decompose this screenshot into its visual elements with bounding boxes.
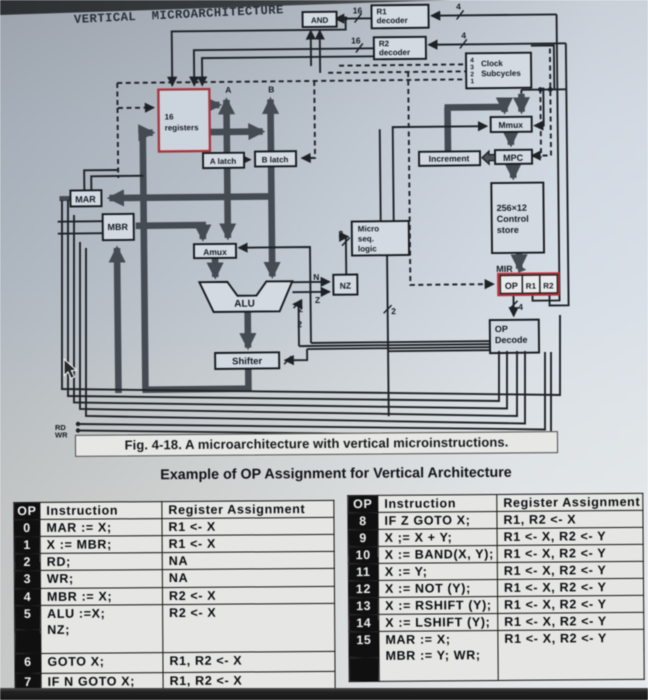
wire: feedback line outer — [62, 200, 560, 395]
MIR OP field — [500, 275, 522, 293]
wire: Amux to ALU — [212, 258, 219, 277]
svg-text:16: 16 — [353, 5, 363, 15]
dashed stub below registers arrow — [117, 108, 120, 178]
wire: R2 loop right side — [547, 43, 569, 305]
svg-text:A: A — [225, 85, 231, 95]
svg-text:4: 4 — [470, 57, 474, 64]
C bus vertical — [143, 130, 146, 390]
wire: R1 field to R1 decoder — [432, 14, 557, 15]
wire: Amux control — [239, 247, 311, 344]
wire: ALU to shifter — [244, 312, 251, 348]
svg-text:Micro: Micro — [358, 224, 380, 233]
svg-text:store: store — [497, 225, 519, 235]
svg-text:2: 2 — [391, 306, 396, 316]
MPC to increment hollow arrow — [482, 151, 495, 164]
MIR R1 field — [522, 275, 540, 293]
micro sequencing logic box — [352, 221, 409, 256]
wire: control store to MIR — [516, 253, 523, 269]
svg-text:registers: registers — [165, 123, 199, 132]
wire: MBR to Amux — [136, 225, 203, 240]
svg-text:Control: Control — [497, 214, 529, 224]
MIR register red outline — [498, 273, 558, 295]
svg-text:Shifter: Shifter — [232, 356, 263, 367]
B bus (up arrow) — [267, 99, 274, 151]
B latch box — [255, 151, 296, 166]
wire: OP decode bottom output 1 — [68, 200, 499, 401]
svg-text:seq.: seq. — [358, 234, 374, 243]
svg-text:4: 4 — [456, 1, 461, 11]
wire: registers to A bus — [209, 102, 219, 109]
R1 decoder box — [371, 5, 428, 29]
svg-text:WR: WR — [55, 431, 68, 440]
svg-text:256×12: 256×12 — [497, 203, 527, 213]
svg-text:A latch: A latch — [210, 157, 237, 166]
control store box — [491, 183, 544, 254]
wire: WR line — [78, 352, 551, 436]
wire: R2 field to R2 decoder — [429, 43, 566, 44]
wire: registers to B bus — [210, 128, 263, 135]
MIR arrow mark — [517, 264, 526, 273]
svg-text:Increment: Increment — [429, 153, 470, 163]
mouse cursor — [62, 358, 86, 384]
svg-text:4: 4 — [518, 302, 523, 312]
dashed clock line 2 — [328, 71, 466, 72]
svg-text:OP: OP — [505, 281, 518, 291]
clock subcycles box — [466, 53, 531, 89]
MPC box — [495, 150, 532, 164]
dashed clock line 3 — [117, 79, 466, 83]
svg-text:1: 1 — [470, 78, 474, 85]
AND gate box — [303, 12, 337, 27]
16 registers box (red) — [158, 89, 210, 152]
wire: ALU control — [294, 304, 299, 346]
svg-text:2: 2 — [297, 319, 302, 329]
svg-text:Decode: Decode — [495, 335, 528, 345]
NZ box — [333, 275, 357, 295]
svg-text:NZ: NZ — [340, 281, 351, 291]
svg-text:MPC: MPC — [503, 153, 524, 163]
wire: latch link — [244, 159, 250, 161]
wire: decoder line into registers — [172, 19, 347, 86]
wire: MBR memory stubs — [58, 221, 103, 233]
svg-text:R2: R2 — [543, 281, 554, 290]
wire: MAR top links — [84, 170, 143, 191]
wire: loop top into Mmux — [521, 89, 566, 93]
wire: increment to Mmux — [445, 106, 505, 152]
wire: OP decode bottom output 2 — [74, 215, 507, 409]
OP decode box — [490, 320, 539, 354]
svg-text:decoder: decoder — [379, 48, 410, 57]
svg-text:ALU: ALU — [234, 299, 255, 310]
wire: OP decode bottom output 4 — [86, 248, 525, 424]
svg-text:N: N — [313, 272, 319, 282]
svg-text:B latch: B latch — [262, 155, 289, 164]
slash marks and small labels — [281, 10, 519, 364]
wire: R1 decoder to AND — [336, 17, 376, 19]
wire: ALU N flag — [292, 281, 329, 283]
wire: shifter control — [285, 349, 307, 360]
svg-text:Z: Z — [315, 295, 320, 305]
wire: bottom bus up into MBR — [117, 248, 119, 393]
A latch box — [203, 153, 244, 168]
svg-text:Mmux: Mmux — [498, 120, 523, 130]
wire: decoder output into registers — [202, 56, 375, 85]
svg-text:AND: AND — [311, 16, 329, 25]
wire: clock to Mmux right — [534, 88, 543, 126]
R2 decoder box — [374, 37, 426, 60]
svg-text:R1: R1 — [526, 282, 537, 291]
svg-text:2: 2 — [338, 229, 343, 239]
wire: OP decode left outputs — [299, 341, 490, 352]
svg-text:logic: logic — [358, 244, 377, 253]
wire: AND clock input stubs — [310, 31, 312, 66]
Amux box — [194, 244, 236, 258]
svg-text:OP: OP — [495, 324, 508, 334]
C bus bottom horizontal — [142, 389, 248, 390]
wire: shifter output down — [245, 369, 252, 392]
MAR input bus — [109, 196, 271, 198]
svg-text:Amux: Amux — [203, 247, 227, 257]
svg-text:decoder: decoder — [377, 16, 408, 25]
MAR box — [70, 190, 101, 206]
svg-text:B: B — [268, 84, 274, 94]
wire: R2 decoder output into registers — [194, 48, 375, 85]
svg-text:Clock: Clock — [481, 59, 503, 68]
B bus: B latch to ALU — [271, 166, 272, 276]
dashed wire into registers — [117, 83, 153, 108]
svg-text:16: 16 — [351, 35, 361, 45]
svg-text:16: 16 — [165, 112, 175, 121]
wire: R1 loop right side — [530, 14, 560, 300]
wire: micro seq logic down — [387, 255, 389, 416]
junction dots — [343, 16, 347, 20]
wire: MIR OP field down — [512, 295, 514, 316]
dashed wire into MPC — [531, 48, 551, 155]
A bus (up arrow) — [223, 100, 230, 153]
MIR R2 field — [540, 275, 558, 293]
dashed stub — [539, 89, 542, 158]
wire: C bus into registers — [143, 129, 153, 136]
MBR box — [103, 214, 134, 240]
dashed clock line 1 — [339, 64, 466, 65]
wire: ALU Z flag — [292, 291, 329, 293]
svg-text:3: 3 — [470, 64, 474, 71]
wire: Mmux to MPC — [507, 132, 514, 145]
dashed wire into MIR — [408, 71, 493, 285]
increment box — [419, 151, 480, 166]
Mmux box — [491, 117, 532, 132]
wire: outer loop into Mmux — [518, 94, 525, 112]
svg-text:4: 4 — [461, 30, 466, 40]
svg-text:2: 2 — [298, 304, 303, 314]
svg-text:R1: R1 — [376, 7, 387, 16]
svg-text:R2: R2 — [379, 39, 390, 48]
svg-text:MBR: MBR — [107, 222, 128, 232]
wire: OP decode bottom output 3 — [80, 242, 517, 416]
wire: clock corner — [531, 45, 554, 89]
ALU shape — [199, 281, 292, 312]
dashed wire into B latch — [301, 81, 315, 158]
MAR memory stub — [59, 196, 70, 201]
svg-text:Subcycles: Subcycles — [481, 69, 521, 78]
RD WR junction dots — [76, 422, 80, 426]
A bus: A latch to Amux — [224, 168, 231, 238]
wire: micro seq logic to Mmux — [393, 126, 488, 221]
wire: control into micro seq logic top — [379, 129, 382, 221]
svg-text:MIR: MIR — [496, 264, 513, 274]
svg-text:MAR: MAR — [75, 194, 96, 204]
wire: NZ to micro seq logic — [346, 237, 348, 275]
shifter box — [215, 352, 279, 369]
wire: RD line — [78, 352, 545, 430]
wire: MPC to control store — [510, 164, 517, 178]
svg-text:2: 2 — [470, 71, 474, 78]
